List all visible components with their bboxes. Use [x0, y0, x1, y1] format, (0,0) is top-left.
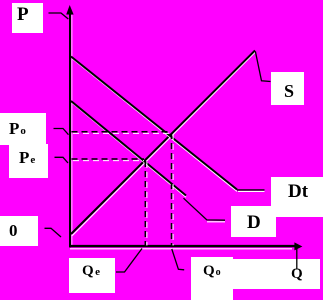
demand curve Dt — [71, 57, 237, 190]
text Pe — [19, 149, 35, 166]
supply curve S white fringe — [72, 52, 255, 236]
label box Pe — [9, 144, 48, 178]
text Qe — [82, 264, 100, 279]
dashed quantity line Qo — [171, 133, 173, 246]
text Dt — [288, 182, 308, 201]
text Q — [291, 267, 303, 282]
dashed price line P0 — [72, 131, 171, 133]
dashed price line P0 white fringe — [73, 132, 170, 134]
D elbow leader — [184, 198, 226, 220]
label box Q — [233, 259, 320, 289]
supply curve S — [71, 51, 255, 235]
P0 label leader — [54, 129, 69, 135]
Dt tail leader — [237, 189, 265, 191]
demand curve D — [71, 101, 186, 196]
demand curve Dt white fringe — [72, 59, 237, 192]
label box 0 — [0, 216, 38, 246]
dashed quantity line Qe — [144, 161, 146, 246]
label box P — [12, 3, 43, 33]
label box D — [231, 206, 276, 237]
y-axis white fringe — [71, 15, 73, 245]
text P — [17, 5, 29, 24]
text P0 — [9, 120, 26, 137]
Qe label leader — [116, 249, 142, 273]
dashed quantity line Qo white fringe — [172, 134, 174, 246]
Qo label leader — [172, 249, 184, 270]
Dt tail white fringe — [238, 190, 265, 192]
0 label leader — [45, 228, 62, 237]
Q label leader — [296, 248, 298, 270]
dashed quantity line Qe white fringe — [146, 162, 148, 246]
text Qo — [203, 264, 221, 279]
y-axis (P axis) — [69, 12, 71, 247]
dashed price line Pe white fringe — [73, 160, 144, 162]
label box Qe — [69, 258, 115, 293]
Pe label leader — [55, 157, 69, 163]
y-axis arrowhead — [66, 5, 73, 15]
label box Qo — [191, 257, 233, 300]
text S — [284, 82, 294, 100]
S callout leader — [255, 52, 270, 82]
x-axis white fringe — [70, 248, 292, 250]
text 0 — [9, 222, 18, 239]
label box Dt — [271, 177, 323, 217]
text D — [247, 213, 261, 232]
D elbow leader white fringe — [207, 221, 225, 223]
dashed price line Pe — [72, 158, 145, 160]
label box P0 — [0, 113, 46, 145]
x-axis (Q axis) — [69, 245, 295, 247]
P label leader — [49, 13, 69, 19]
demand curve D white fringe — [72, 103, 186, 197]
x-axis arrowhead — [294, 242, 302, 250]
label box S — [271, 72, 304, 105]
